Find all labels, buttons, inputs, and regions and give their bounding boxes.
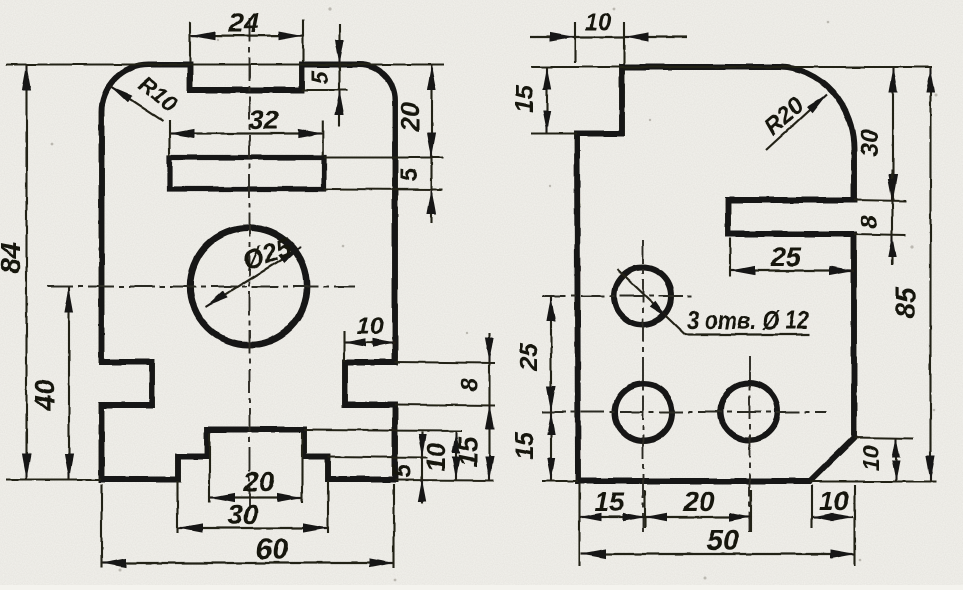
svg-text:30: 30 [227, 499, 259, 530]
dim 5 bottom right [388, 432, 426, 503]
dim 40 [29, 287, 74, 480]
dim 10 right notch width [344, 313, 395, 361]
svg-text:20: 20 [395, 102, 425, 132]
extension line bottom edge right [810, 481, 936, 483]
dim 32 [170, 105, 323, 156]
dim 25 left [515, 296, 556, 412]
extension line top edge [6, 64, 444, 66]
extension line notch bottom [302, 89, 348, 91]
extension line slot bottom [324, 188, 443, 191]
dim 60 bottom [102, 484, 395, 568]
svg-text:8: 8 [456, 378, 483, 392]
extension line slot top right [854, 200, 906, 201]
dim 8 right side [456, 333, 494, 481]
dim 15 bottom [580, 483, 752, 566]
svg-text:20: 20 [682, 486, 715, 517]
dim 10 bottom right chamfer [812, 485, 853, 528]
dim 10 right vertical chamfer [858, 438, 900, 482]
svg-text:25: 25 [515, 342, 543, 372]
svg-text:20: 20 [242, 466, 275, 497]
centerline hole H3 vertical [749, 356, 751, 532]
svg-text:10: 10 [421, 442, 451, 471]
dim 20 bottom [210, 433, 303, 503]
svg-text:50: 50 [707, 525, 739, 557]
left view plate outline [101, 65, 395, 480]
svg-text:15: 15 [511, 84, 539, 113]
svg-text:15: 15 [511, 431, 539, 460]
radius leader R20 [759, 91, 827, 150]
dim 20 bottom [645, 486, 751, 532]
dim 15 left bottom [511, 412, 555, 481]
dim 85 far right [890, 67, 935, 481]
svg-text:5: 5 [307, 70, 334, 84]
extension line right notch top [395, 362, 495, 363]
svg-text:10: 10 [858, 445, 884, 471]
extension line bottom right [395, 479, 494, 482]
extension line bottom left [6, 479, 101, 481]
leader 3 holes D12 [617, 269, 810, 335]
svg-text:85: 85 [890, 287, 921, 319]
svg-text:30: 30 [856, 129, 884, 157]
diameter leader D25 [205, 231, 302, 307]
radius leader R10 [110, 70, 183, 121]
dim 5 right (slot height) [396, 168, 436, 215]
dim 30 right [856, 67, 898, 200]
centerline holes H1 H2 vertical [642, 240, 644, 532]
left horizontal centerline [47, 286, 355, 288]
extension line slot top [324, 157, 443, 159]
svg-text:25: 25 [770, 242, 802, 272]
dim 20 right top [395, 65, 436, 224]
dim 25 slot [730, 238, 854, 277]
extension line chamfer top [854, 438, 913, 439]
extension line right notch bottom [395, 405, 495, 406]
dim 10 bottom right [421, 431, 460, 480]
svg-text:10: 10 [819, 486, 849, 516]
svg-text:40: 40 [29, 379, 60, 412]
svg-text:5: 5 [388, 463, 416, 478]
dim 8 right [856, 170, 896, 265]
svg-text:8: 8 [856, 215, 883, 229]
extension line notch bottom left [531, 133, 577, 135]
svg-text:5: 5 [396, 168, 423, 182]
dim 24 [190, 8, 303, 62]
svg-text:32: 32 [249, 105, 279, 135]
centerline holes H2 H3 horizontal [542, 411, 826, 413]
svg-text:84: 84 [0, 242, 26, 274]
left vertical centerline [249, 18, 251, 506]
dim 15 top left [511, 67, 551, 134]
svg-text:3 отв. Ø 12: 3 отв. Ø 12 [687, 305, 809, 335]
extension line bottom edge left [542, 480, 578, 482]
left view slot [170, 158, 325, 190]
svg-text:60: 60 [256, 534, 288, 566]
hole H2 [615, 384, 672, 441]
left view circle D25 [190, 228, 307, 345]
svg-text:24: 24 [228, 8, 259, 38]
dim 30 bottom [178, 481, 329, 533]
dim 50 bottom [581, 485, 855, 566]
dim 5 top (notch depth) [307, 24, 344, 126]
centerline hole H1 horizontal [542, 295, 692, 297]
dim 15 right side [453, 436, 494, 481]
extension line slot bottom right [854, 234, 906, 235]
hole H3 [721, 383, 778, 440]
extension line step top [304, 430, 462, 431]
svg-text:10: 10 [357, 313, 384, 340]
extension line right top edge [531, 66, 932, 68]
right view plate outline [577, 67, 854, 481]
hole H1 [614, 268, 671, 325]
svg-text:15: 15 [594, 487, 625, 517]
dim 10 top [530, 9, 687, 64]
svg-text:10: 10 [585, 9, 612, 36]
extension line step mid [328, 457, 428, 458]
dim 84 [0, 65, 31, 480]
